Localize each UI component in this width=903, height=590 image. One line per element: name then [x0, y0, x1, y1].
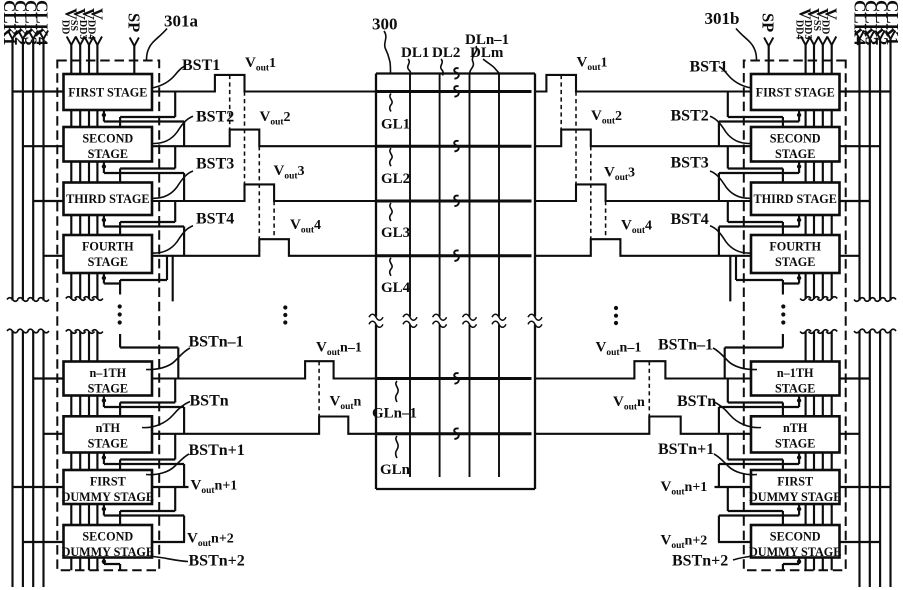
svg-text:DUMMY STAGE: DUMMY STAGE: [62, 545, 154, 559]
svg-text:SP: SP: [124, 13, 143, 32]
svg-text:BSTn+2: BSTn+2: [189, 553, 245, 570]
svg-text:STAGE: STAGE: [775, 147, 815, 161]
svg-text:Vout2: Vout2: [591, 108, 622, 127]
svg-text:BSTn+2: BSTn+2: [672, 553, 728, 570]
svg-text:VDD4: VDD4: [85, 8, 106, 39]
svg-text:Voutn+2: Voutn+2: [661, 533, 708, 552]
svg-text:nTH: nTH: [96, 421, 121, 435]
svg-text:FIRST: FIRST: [777, 475, 813, 489]
svg-text:SECOND: SECOND: [82, 132, 133, 146]
svg-text:BSTn+1: BSTn+1: [658, 441, 714, 458]
svg-text:STAGE: STAGE: [88, 255, 128, 269]
svg-text:STAGE: STAGE: [88, 382, 128, 396]
svg-text:CLK4: CLK4: [33, 0, 52, 46]
svg-text:BST1: BST1: [690, 59, 728, 76]
svg-text:Vout2: Vout2: [260, 109, 291, 128]
svg-text:BST4: BST4: [671, 211, 709, 228]
svg-text:DUMMY STAGE: DUMMY STAGE: [749, 490, 841, 504]
svg-text:DL1: DL1: [401, 45, 429, 61]
svg-text:BSTn–1: BSTn–1: [658, 337, 713, 354]
svg-text:Voutn+1: Voutn+1: [191, 478, 238, 497]
svg-text:SECOND: SECOND: [770, 530, 821, 544]
svg-text:GL1: GL1: [381, 117, 410, 133]
svg-text:FIRST STAGE: FIRST STAGE: [68, 86, 147, 100]
svg-text:THIRD STAGE: THIRD STAGE: [66, 192, 149, 206]
svg-text:DUMMY STAGE: DUMMY STAGE: [62, 490, 154, 504]
svg-text:Vout4: Vout4: [621, 218, 652, 237]
svg-text:BST1: BST1: [182, 57, 220, 74]
svg-text:STAGE: STAGE: [775, 255, 815, 269]
svg-text:STAGE: STAGE: [88, 436, 128, 450]
svg-text:FIRST: FIRST: [90, 475, 126, 489]
svg-text:DLm: DLm: [470, 45, 504, 61]
svg-text:SECOND: SECOND: [82, 530, 133, 544]
svg-text:Vout3: Vout3: [274, 163, 305, 182]
svg-text:301a: 301a: [164, 12, 199, 31]
svg-text:301b: 301b: [705, 9, 740, 28]
svg-text:Vout3: Vout3: [604, 165, 635, 184]
svg-text:BSTn–1: BSTn–1: [189, 334, 244, 351]
svg-text:BST4: BST4: [196, 211, 234, 228]
svg-text:BST3: BST3: [671, 155, 709, 172]
svg-text:BSTn+1: BSTn+1: [189, 442, 245, 459]
svg-text:Voutn–1: Voutn–1: [316, 340, 362, 359]
svg-text:BST2: BST2: [671, 108, 709, 125]
svg-text:FIRST STAGE: FIRST STAGE: [756, 86, 835, 100]
svg-text:Voutn: Voutn: [613, 394, 645, 413]
svg-text:n–1TH: n–1TH: [777, 366, 814, 380]
svg-text:Vout4: Vout4: [290, 217, 321, 236]
svg-text:SP: SP: [759, 13, 778, 32]
svg-text:CLK1: CLK1: [883, 0, 902, 45]
svg-text:BST3: BST3: [196, 156, 234, 173]
svg-text:FOURTH: FOURTH: [769, 240, 821, 254]
svg-text:Vout1: Vout1: [245, 55, 276, 74]
svg-text:300: 300: [372, 15, 398, 34]
svg-text:BSTn: BSTn: [190, 393, 229, 410]
svg-text:DUMMY STAGE: DUMMY STAGE: [749, 545, 841, 559]
svg-text:GLn: GLn: [380, 462, 411, 478]
svg-text:Vout1: Vout1: [577, 55, 608, 74]
svg-text:VDD: VDD: [820, 8, 841, 34]
svg-text:BSTn: BSTn: [677, 393, 716, 410]
svg-text:GL3: GL3: [381, 225, 410, 241]
svg-text:STAGE: STAGE: [88, 147, 128, 161]
svg-text:n–1TH: n–1TH: [90, 366, 127, 380]
svg-text:GLn–1: GLn–1: [372, 406, 417, 422]
svg-text:THIRD STAGE: THIRD STAGE: [753, 192, 836, 206]
svg-text:Voutn: Voutn: [330, 394, 362, 413]
svg-text:nTH: nTH: [783, 421, 808, 435]
svg-text:Voutn–1: Voutn–1: [596, 340, 642, 359]
svg-text:STAGE: STAGE: [775, 382, 815, 396]
svg-text:Voutn+1: Voutn+1: [661, 479, 708, 498]
svg-text:STAGE: STAGE: [775, 436, 815, 450]
svg-text:SECOND: SECOND: [770, 132, 821, 146]
svg-text:FOURTH: FOURTH: [82, 240, 134, 254]
svg-text:DL2: DL2: [432, 45, 460, 61]
svg-text:GL4: GL4: [381, 280, 411, 296]
svg-text:Voutn+2: Voutn+2: [187, 531, 234, 550]
svg-text:GL2: GL2: [381, 171, 410, 187]
svg-text:BST2: BST2: [196, 109, 234, 126]
